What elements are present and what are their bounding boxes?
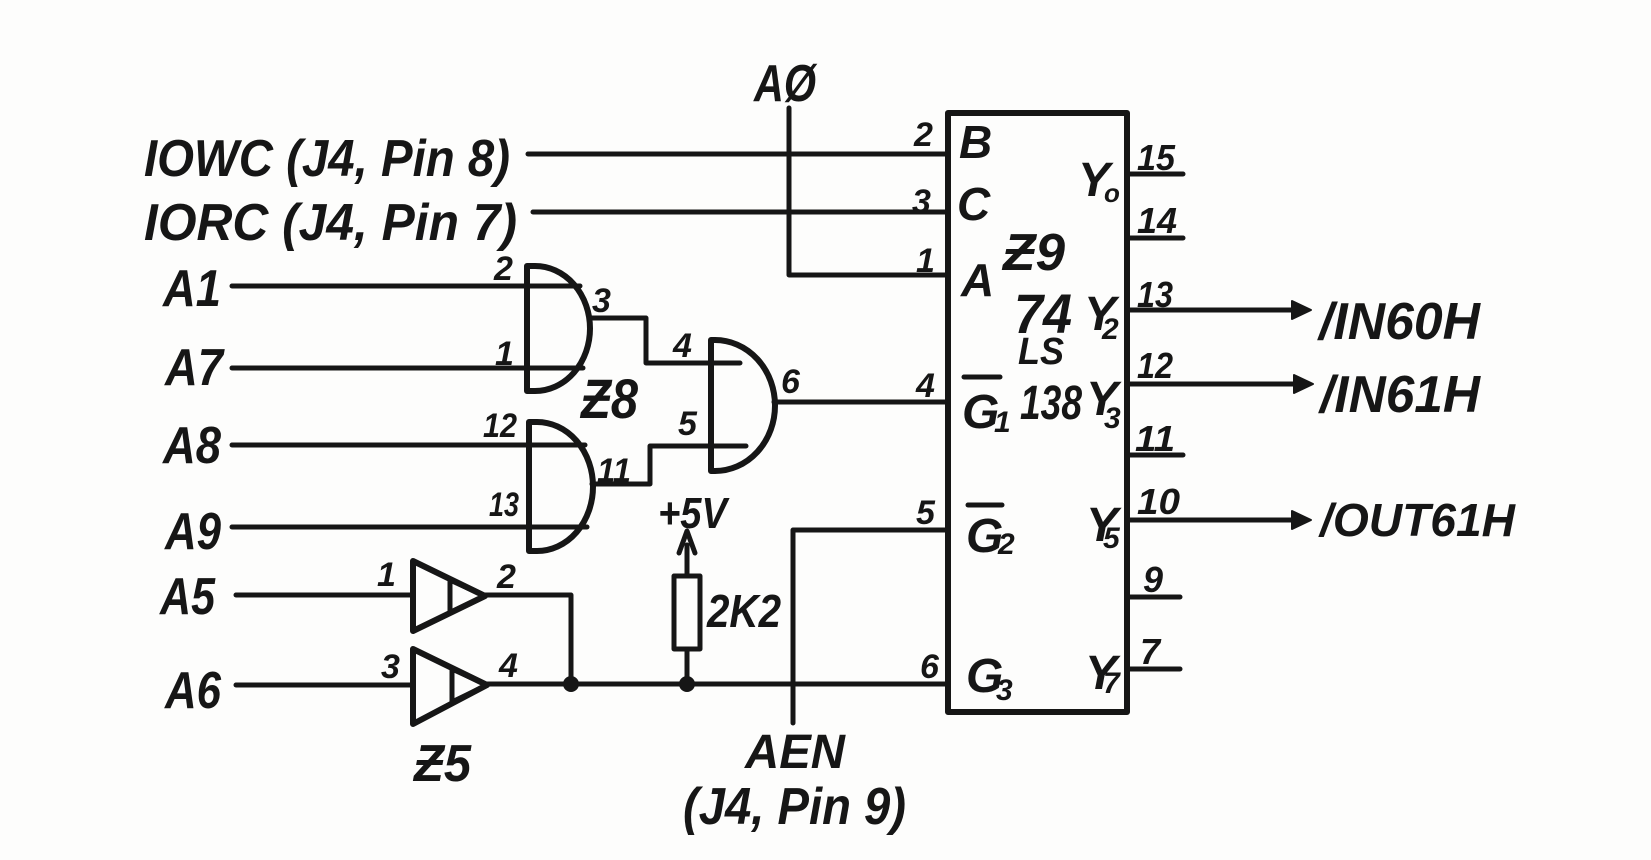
svg-text:1: 1 (377, 556, 396, 594)
svg-text:3: 3 (996, 674, 1013, 707)
buffer Z5a inner triangle (450, 580, 485, 613)
svg-text:13: 13 (1137, 274, 1173, 315)
AND gate Z8c (711, 340, 775, 471)
svg-text:7: 7 (1140, 631, 1162, 672)
svg-text:/OUT61H: /OUT61H (1318, 494, 1516, 546)
svg-text:A6: A6 (163, 662, 222, 720)
wire Z5a output down to A6 net (485, 595, 571, 684)
svg-text:9: 9 (1143, 559, 1163, 600)
svg-text:2: 2 (496, 558, 516, 596)
svg-text:A5: A5 (158, 568, 216, 626)
svg-text:5: 5 (916, 494, 936, 532)
svg-text:2: 2 (997, 528, 1015, 561)
svg-text:A7: A7 (163, 339, 225, 397)
pin 9 stub (1127, 595, 1180, 600)
pin 12 arrowhead (1294, 375, 1313, 393)
svg-text:12: 12 (483, 407, 517, 445)
svg-text:A1: A1 (161, 260, 221, 318)
svg-text:11: 11 (1135, 418, 1175, 459)
svg-text:3: 3 (592, 282, 611, 320)
wire Z8a output to Z8c pin 4 (590, 318, 740, 363)
svg-text:1: 1 (994, 406, 1011, 439)
wire Z5b output to pin G3 (487, 682, 946, 687)
buffer Z5b inner triangle (452, 669, 487, 702)
svg-text:A8: A8 (161, 417, 221, 475)
wire IOWC to pin B (528, 152, 946, 157)
svg-text:A9: A9 (163, 503, 221, 561)
pin 15 stub (1127, 172, 1183, 177)
svg-text:Ƶ5: Ƶ5 (412, 735, 472, 793)
svg-text:3: 3 (381, 648, 400, 686)
svg-text:138: 138 (1020, 377, 1082, 430)
svg-text:4: 4 (915, 367, 935, 405)
svg-text:/IN60H: /IN60H (1317, 293, 1481, 351)
pin 14 stub (1127, 236, 1183, 241)
svg-text:15: 15 (1137, 137, 1176, 178)
svg-text:2K2: 2K2 (706, 585, 781, 637)
svg-text:Ƶ9: Ƶ9 (1001, 224, 1065, 282)
wire A8 to Z8 pin 12 (232, 443, 585, 448)
junction dot Z5a/Z5b outputs (563, 676, 579, 692)
wire Z8c output to pin G1 (774, 400, 946, 405)
svg-text:6: 6 (781, 363, 801, 401)
svg-text:2: 2 (1101, 313, 1119, 346)
pin 11 stub (1127, 453, 1183, 458)
pin 10 arrowhead (1292, 511, 1311, 529)
svg-text:A: A (960, 254, 994, 306)
wire AEN to pin G2 (793, 530, 946, 723)
wire resistor to G3 net (685, 649, 690, 684)
svg-text:4: 4 (672, 327, 692, 365)
svg-text:5: 5 (678, 405, 698, 443)
IC Z9 74LS138 body (948, 113, 1127, 712)
pin 10 wire to OUT61H (1127, 518, 1295, 523)
svg-text:AEN: AEN (744, 726, 846, 779)
wire A5 to Z5 pin 1 (236, 593, 413, 598)
wire A1 to Z8 pin 2 (232, 284, 580, 289)
svg-text:AØ: AØ (752, 55, 818, 113)
wire IORC to pin C (533, 210, 946, 215)
AND gate Z8b (529, 422, 593, 551)
junction dot resistor to G3 net (679, 676, 695, 692)
pin 13 wire to IN60H (1127, 308, 1295, 313)
pin name G1 overbar (964, 375, 1000, 380)
svg-text:6: 6 (920, 648, 940, 686)
wire Z8b output to Z8c pin 5 (592, 446, 746, 484)
svg-text:IORC (J4, Pin 7): IORC (J4, Pin 7) (144, 194, 517, 252)
power +5V arrow (679, 531, 695, 574)
svg-text:IOWC (J4, Pin 8): IOWC (J4, Pin 8) (144, 130, 510, 188)
svg-text:1: 1 (495, 335, 514, 373)
pin 7 stub (1127, 667, 1180, 672)
svg-text:(J4, Pin 9): (J4, Pin 9) (683, 778, 906, 836)
svg-text:14: 14 (1137, 200, 1177, 241)
svg-text:2: 2 (913, 116, 933, 154)
svg-text:10: 10 (1137, 481, 1180, 522)
svg-text:2: 2 (493, 250, 513, 288)
svg-text:B: B (959, 116, 992, 168)
buffer Z5a (413, 561, 485, 631)
svg-text:13: 13 (489, 486, 519, 524)
svg-text:+5V: +5V (658, 489, 730, 538)
wire A9 to Z8 pin 13 (232, 525, 587, 530)
svg-text:o: o (1104, 178, 1120, 208)
svg-text:/IN61H: /IN61H (1318, 366, 1481, 424)
svg-text:LS: LS (1018, 331, 1064, 373)
svg-text:C: C (957, 178, 991, 230)
pin 13 arrowhead (1292, 301, 1311, 319)
resistor R 2k2 (674, 576, 700, 649)
svg-text:7: 7 (1103, 667, 1121, 700)
svg-text:5: 5 (1103, 522, 1121, 555)
svg-text:Ƶ8: Ƶ8 (579, 367, 638, 430)
wire A0 to pin A (789, 108, 946, 275)
svg-text:3: 3 (1104, 402, 1121, 435)
svg-text:4: 4 (498, 647, 518, 685)
pin 12 wire to IN61H (1127, 382, 1297, 387)
pin name G2 overbar (968, 503, 1002, 508)
AND gate Z8a (527, 266, 590, 391)
svg-text:1: 1 (916, 242, 935, 280)
buffer Z5b (413, 649, 487, 724)
svg-text:12: 12 (1137, 345, 1173, 386)
wire A7 to Z8 pin 1 (232, 366, 583, 371)
svg-text:3: 3 (912, 183, 931, 221)
wire A6 to Z5 pin 3 (236, 683, 413, 688)
